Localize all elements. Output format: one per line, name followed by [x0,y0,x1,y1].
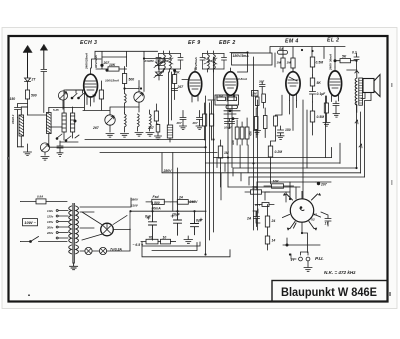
svg-text:100µF: 100µF [224,126,232,130]
svg-text:0.8A: 0.8A [37,195,43,199]
svg-text:0.1M: 0.1M [216,95,223,99]
EL2 grounds [323,114,340,127]
IF transformer 1 [156,51,183,72]
resistor 1M em4 a [281,58,285,72]
trimmer left of ECH3 a [58,91,67,109]
svg-text:5-25: 5-25 [53,108,59,112]
svg-text:42K: 42K [249,130,253,137]
svg-text:145v: 145v [47,220,54,224]
resistor 42K c [245,118,249,145]
resistor 10 [161,239,176,244]
svg-text:150: 150 [285,128,291,132]
wire tuner bus [18,90,85,147]
vertical EL2/output [326,96,365,177]
osc coil 4 [150,110,152,131]
resistor 30K left of EF9 [173,70,177,91]
antenna 1 [23,46,32,78]
box 180V/3mA [232,53,273,65]
title box [272,281,388,302]
EM4 leads down [290,101,297,115]
svg-text:X1: X1 [313,213,318,217]
speaker arrows [355,120,362,148]
bus 57 [102,56,127,58]
svg-text:EF 9: EF 9 [188,40,201,46]
svg-text:0.5M: 0.5M [316,61,324,65]
EL2 top parts [335,59,356,63]
junction L3 [74,120,76,122]
resistor 42K em4 [274,95,282,141]
svg-text:2A: 2A [246,217,252,221]
cap 150 mid [278,126,284,136]
junction 207 above ECH3 [101,64,103,66]
resistor 0.2M [268,141,275,164]
svg-text:220v: 220v [46,231,54,235]
tube EBF2 [224,68,238,101]
resistor Fsd 500 [146,199,170,204]
svg-text:0.5M: 0.5M [317,115,325,119]
resistor 42K a [235,120,239,145]
grid contacts left of ECH3 [71,90,83,99]
verticals right of EBF2 [221,145,271,187]
coil L3 pair (hatched) [62,107,75,140]
10W box [23,219,38,226]
resistor 1M vert [218,140,222,168]
osc coil 1 [125,89,127,114]
svg-text:0.1M: 0.1M [229,95,236,99]
transformer ground [70,263,78,270]
ground tuner A [24,144,32,156]
resistor 24 [170,200,195,205]
junction dots EF9 [174,69,176,71]
band switch rotor [283,192,321,231]
svg-text:110v: 110v [47,209,53,213]
right heater segment [283,238,320,245]
resistor 42K b [240,122,244,145]
switch bottom wire to PU [302,222,308,252]
svg-text:1M: 1M [92,94,97,98]
cap 1T at switch [321,212,331,226]
svg-text:10W ~: 10W ~ [24,220,36,225]
coil L2 (hatched) [47,108,52,147]
cap+ground under L3 [57,141,63,156]
svg-text:0.8mA: 0.8mA [238,77,247,81]
tube ECH3 [84,68,98,106]
ground tuner B [41,157,49,161]
radial contacts [283,192,321,229]
svg-text:10: 10 [163,235,167,239]
osc trimmer cap 2 [134,87,144,113]
nested feedback lines [162,153,365,200]
EL2 cathode [324,96,328,122]
svg-text:EBF 2: EBF 2 [219,40,236,46]
svg-text:380V: 380V [131,198,139,202]
svg-text:8µF: 8µF [145,215,152,219]
svg-text:8µF: 8µF [196,219,203,223]
misc left verticals [17,146,19,148]
junction 207 right [317,182,320,185]
left frame verticals lower [20,201,22,241]
osc top trimmer B [154,70,165,81]
EF9 cathode cap a [180,111,186,127]
power transformer [56,204,78,264]
resistor 10K switch [264,184,294,188]
mains switch [21,237,68,242]
osc wiring [66,81,139,115]
top bus left [95,51,158,91]
svg-text:14: 14 [272,239,276,243]
primary taps [58,211,68,239]
svg-text:Blaupunkt W 846E: Blaupunkt W 846E [281,285,377,299]
long vertical buses middle [206,57,258,255]
svg-text:16µF: 16µF [172,213,181,217]
HT bus at 211 [131,202,206,211]
svg-text:1M: 1M [224,151,229,155]
svg-text:Sa: Sa [279,47,283,51]
svg-text:24: 24 [178,196,183,200]
cap 100uF det [225,119,235,129]
280V label wire [165,171,205,173]
svg-text:5K: 5K [342,55,347,59]
svg-text:EM 4: EM 4 [285,39,299,45]
HT wiring right of rectifier [80,198,131,228]
svg-text:0.1: 0.1 [352,51,357,55]
svg-text:24: 24 [271,219,276,223]
dial lamp 2 [99,247,106,254]
cap 207 ebf right [260,82,266,94]
svg-text:0.2M: 0.2M [275,150,283,154]
antenna 2 [40,45,47,113]
svg-text:150/0.3: 150/0.3 [11,114,15,124]
resistor 70 [141,239,161,244]
resistor 2M [252,91,259,97]
mains wire + fuse [21,199,68,204]
svg-text:240V 36mA: 240V 36mA [329,54,333,71]
wire EBF2 top right [230,53,248,73]
PU ground [304,268,312,272]
svg-text:Fsd: Fsd [153,195,160,199]
ECH3 grid cap wire [78,59,101,90]
svg-text:125v: 125v [47,215,54,219]
svg-text:280V: 280V [163,169,173,173]
svg-text:230/80: 230/80 [144,59,155,63]
PU terminals [291,252,310,267]
osc grounds [106,134,114,138]
svg-text:110V: 110V [131,204,139,208]
switch feed wires [286,182,331,202]
svg-text:1M: 1M [287,61,292,65]
scan specks [7,83,393,296]
antenna 1 resistor 500 [25,90,29,115]
svg-text:10K: 10K [109,63,116,67]
wavechange contacts [57,134,79,142]
svg-text:X2: X2 [310,218,315,222]
osc padder resistor 2 [156,124,160,136]
svg-text:ECH 3: ECH 3 [80,40,97,46]
svg-text:200v: 200v [46,226,54,230]
svg-text:240V/25mA: 240V/25mA [85,53,89,70]
trimmer cap tuner [40,143,49,155]
resistor Sa [278,50,288,54]
electrolytic 8uF a [149,211,157,240]
output transformer (hatched) [347,70,363,112]
resistor det d [254,108,258,138]
resistor det e [263,108,267,138]
svg-text:2M: 2M [251,92,257,96]
resistor 10K det [226,105,238,108]
verticals to switch [303,100,307,199]
svg-text:267: 267 [147,126,155,130]
antenna 1 series cap 2T [25,78,31,90]
ground mid psu [172,241,176,243]
wave trap coil (hatched) [167,125,172,142]
vertical feed 16uF [173,153,178,212]
osc top trimmer A [154,59,165,70]
border frame [9,36,388,302]
svg-text:207: 207 [320,183,328,187]
ground det d [254,131,261,135]
resistor 1M em4 b [291,58,295,72]
svg-text:267: 267 [192,121,198,125]
left cluster near switch [255,203,274,207]
svg-text:267: 267 [177,85,185,89]
top bus right [270,47,345,68]
svg-text:207: 207 [258,80,264,84]
tube EM4 [286,68,300,130]
svg-text:10K: 10K [273,180,280,184]
svg-text:100: 100 [252,186,258,190]
svg-text:7v/0.3A: 7v/0.3A [110,248,122,252]
osc coil 3 [138,114,140,131]
resistor 500 vert [122,67,126,89]
EM4 column resistors [310,57,314,75]
svg-text:70: 70 [149,235,153,239]
svg-text:150: 150 [10,97,16,101]
cap 150 [15,104,28,118]
ground em4 [277,136,284,140]
EBF2 detector box [215,95,239,105]
dial lamp 1 [85,247,92,254]
svg-text:80mA: 80mA [152,207,162,211]
svg-text:500: 500 [154,201,160,205]
svg-text:5K: 5K [317,81,322,85]
grid resistor 1M below ECH3 [99,81,103,110]
svg-text:90V/5mA: 90V/5mA [194,57,198,70]
osc trimmer cap 1 [105,115,115,132]
cap 267 left of EF9 [172,80,189,100]
tube EF9 [188,68,201,102]
cap 2A [254,212,260,227]
wire osc top [144,58,169,60]
small resistors det top [255,94,265,108]
svg-text:42K: 42K [231,139,235,146]
input coil L1 (hatched) [19,107,28,147]
osc coil 2 [125,113,127,132]
wire agc left [28,114,47,116]
rectifier tube AZ1 [82,212,130,240]
svg-text:90V/3mA: 90V/3mA [94,55,98,68]
svg-text:0.1µF: 0.1µF [317,92,327,96]
electrolytic 16uF [174,202,182,235]
svg-text:~ 6.5 v: ~ 6.5 v [133,243,145,247]
long verticals right of osc [169,72,172,125]
tube EL2 [328,67,341,102]
svg-text:500: 500 [31,94,37,98]
svg-text:N.K. = 472 kHz: N.K. = 472 kHz [324,270,356,275]
svg-text:180V/3mA: 180V/3mA [233,54,250,58]
lamp wiring [80,229,130,251]
EF9 lower resistors [203,103,207,140]
long wire to EF9 grid [50,140,217,153]
electrolytic 8uF b [191,211,199,235]
svg-text:267: 267 [176,121,182,125]
EF9 cathode cap b [197,111,203,127]
svg-text:100/15mA: 100/15mA [105,79,119,83]
grid resistor 0.5M [329,96,332,106]
bottom bus wires [142,242,230,257]
svg-text:267: 267 [92,126,100,130]
IF transformer 2 [200,51,227,72]
osc padder resistor [154,104,158,124]
resistor 100 switch [245,190,270,194]
svg-text:EL 2: EL 2 [327,38,339,44]
svg-text:500: 500 [129,78,135,82]
svg-text:30K: 30K [174,71,181,75]
svg-text:1M: 1M [277,61,282,65]
speaker [361,75,380,101]
svg-text:P.U.: P.U. [315,256,324,262]
resistor 10K above ECH3 [96,65,127,71]
svg-text:240V: 240V [189,200,199,204]
